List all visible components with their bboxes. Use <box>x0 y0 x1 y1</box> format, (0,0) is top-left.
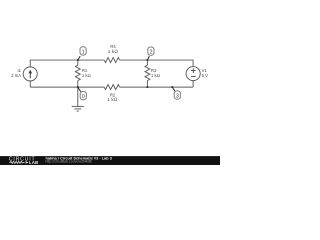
voltage source V1 plus sign <box>191 68 196 76</box>
label R2 value <box>107 92 118 102</box>
ground stem <box>77 87 79 106</box>
svg-text:3: 3 <box>176 93 179 99</box>
ground bar 1 <box>72 105 84 107</box>
svg-text:0: 0 <box>82 94 85 100</box>
node 2 leader <box>147 56 149 60</box>
label V1 value <box>202 68 208 78</box>
footer bar <box>0 156 220 165</box>
node 1 label box <box>80 47 86 56</box>
resistor R3 body <box>145 65 150 80</box>
node 3 leader <box>172 87 175 91</box>
node 3 label box <box>174 91 180 100</box>
ground bar 3 <box>77 110 79 112</box>
footer logo arrow <box>26 161 29 164</box>
svg-text:5 V: 5 V <box>202 73 208 78</box>
node 1 leader <box>78 56 80 60</box>
wire top rail right segment <box>120 59 194 61</box>
resistor R3 bottom lead <box>146 81 148 88</box>
svg-text:1 kΩ: 1 kΩ <box>108 49 119 54</box>
node 0 label box <box>80 92 86 101</box>
junction node 3 dot <box>171 86 173 88</box>
label I1 value <box>11 68 21 78</box>
node 0 leader <box>78 87 81 92</box>
wire I1 bottom lead <box>29 81 31 87</box>
resistor R4 body <box>104 58 119 63</box>
label R1 value <box>82 68 91 78</box>
voltage source V1 minus sign <box>191 76 195 78</box>
voltage source V1 circle <box>186 67 200 81</box>
wire bottom rail right segment <box>120 86 194 88</box>
resistor R3 top lead <box>146 60 148 65</box>
svg-text:1: 1 <box>82 49 85 55</box>
junction R3 bottom dot <box>146 86 148 88</box>
junction R1 bottom dot <box>77 86 79 88</box>
wire bottom rail left segment <box>30 86 104 88</box>
resistor R1 top lead <box>77 60 79 65</box>
wire I1 top lead <box>29 60 31 67</box>
svg-text:2 mA: 2 mA <box>11 73 21 78</box>
svg-text:1 kΩ: 1 kΩ <box>151 73 160 78</box>
wire top rail left segment <box>30 59 104 61</box>
resistor R1 bottom lead <box>77 81 79 88</box>
wire V1 top lead <box>192 60 194 67</box>
svg-text:LAB: LAB <box>29 160 39 165</box>
node 2 label box <box>148 47 154 56</box>
label R3 value <box>151 68 160 78</box>
current source I1 circle <box>23 67 37 81</box>
footer logo resistor zigzag <box>9 161 24 163</box>
junction node 2 dot <box>146 59 148 61</box>
label R4 value <box>108 44 119 54</box>
wire V1 bottom lead <box>192 81 194 88</box>
svg-text:2: 2 <box>149 50 152 56</box>
junction node 1 dot <box>77 59 79 61</box>
svg-text:1 kΩ: 1 kΩ <box>82 73 91 78</box>
resistor R1 body <box>75 65 80 80</box>
svg-text:1 kΩ: 1 kΩ <box>107 97 118 102</box>
ground bar 2 <box>74 108 81 110</box>
resistor R2 body <box>104 85 119 90</box>
svg-text:http://circuitlab.com/cvu54kd8: http://circuitlab.com/cvu54kd8 <box>46 160 92 164</box>
current source I1 arrow <box>29 70 33 79</box>
